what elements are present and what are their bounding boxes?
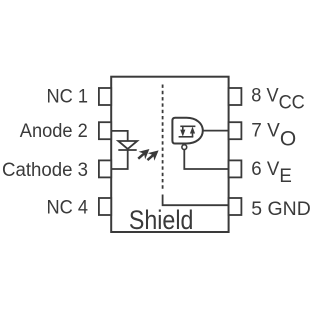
svg-text:NC 4: NC 4 <box>47 198 89 219</box>
svg-text:Anode 2: Anode 2 <box>20 121 88 142</box>
svg-text:NC 1: NC 1 <box>47 86 89 107</box>
svg-text:Cathode 3: Cathode 3 <box>2 160 88 181</box>
svg-text:5 GND: 5 GND <box>251 199 310 220</box>
svg-text:Shield: Shield <box>129 205 194 235</box>
